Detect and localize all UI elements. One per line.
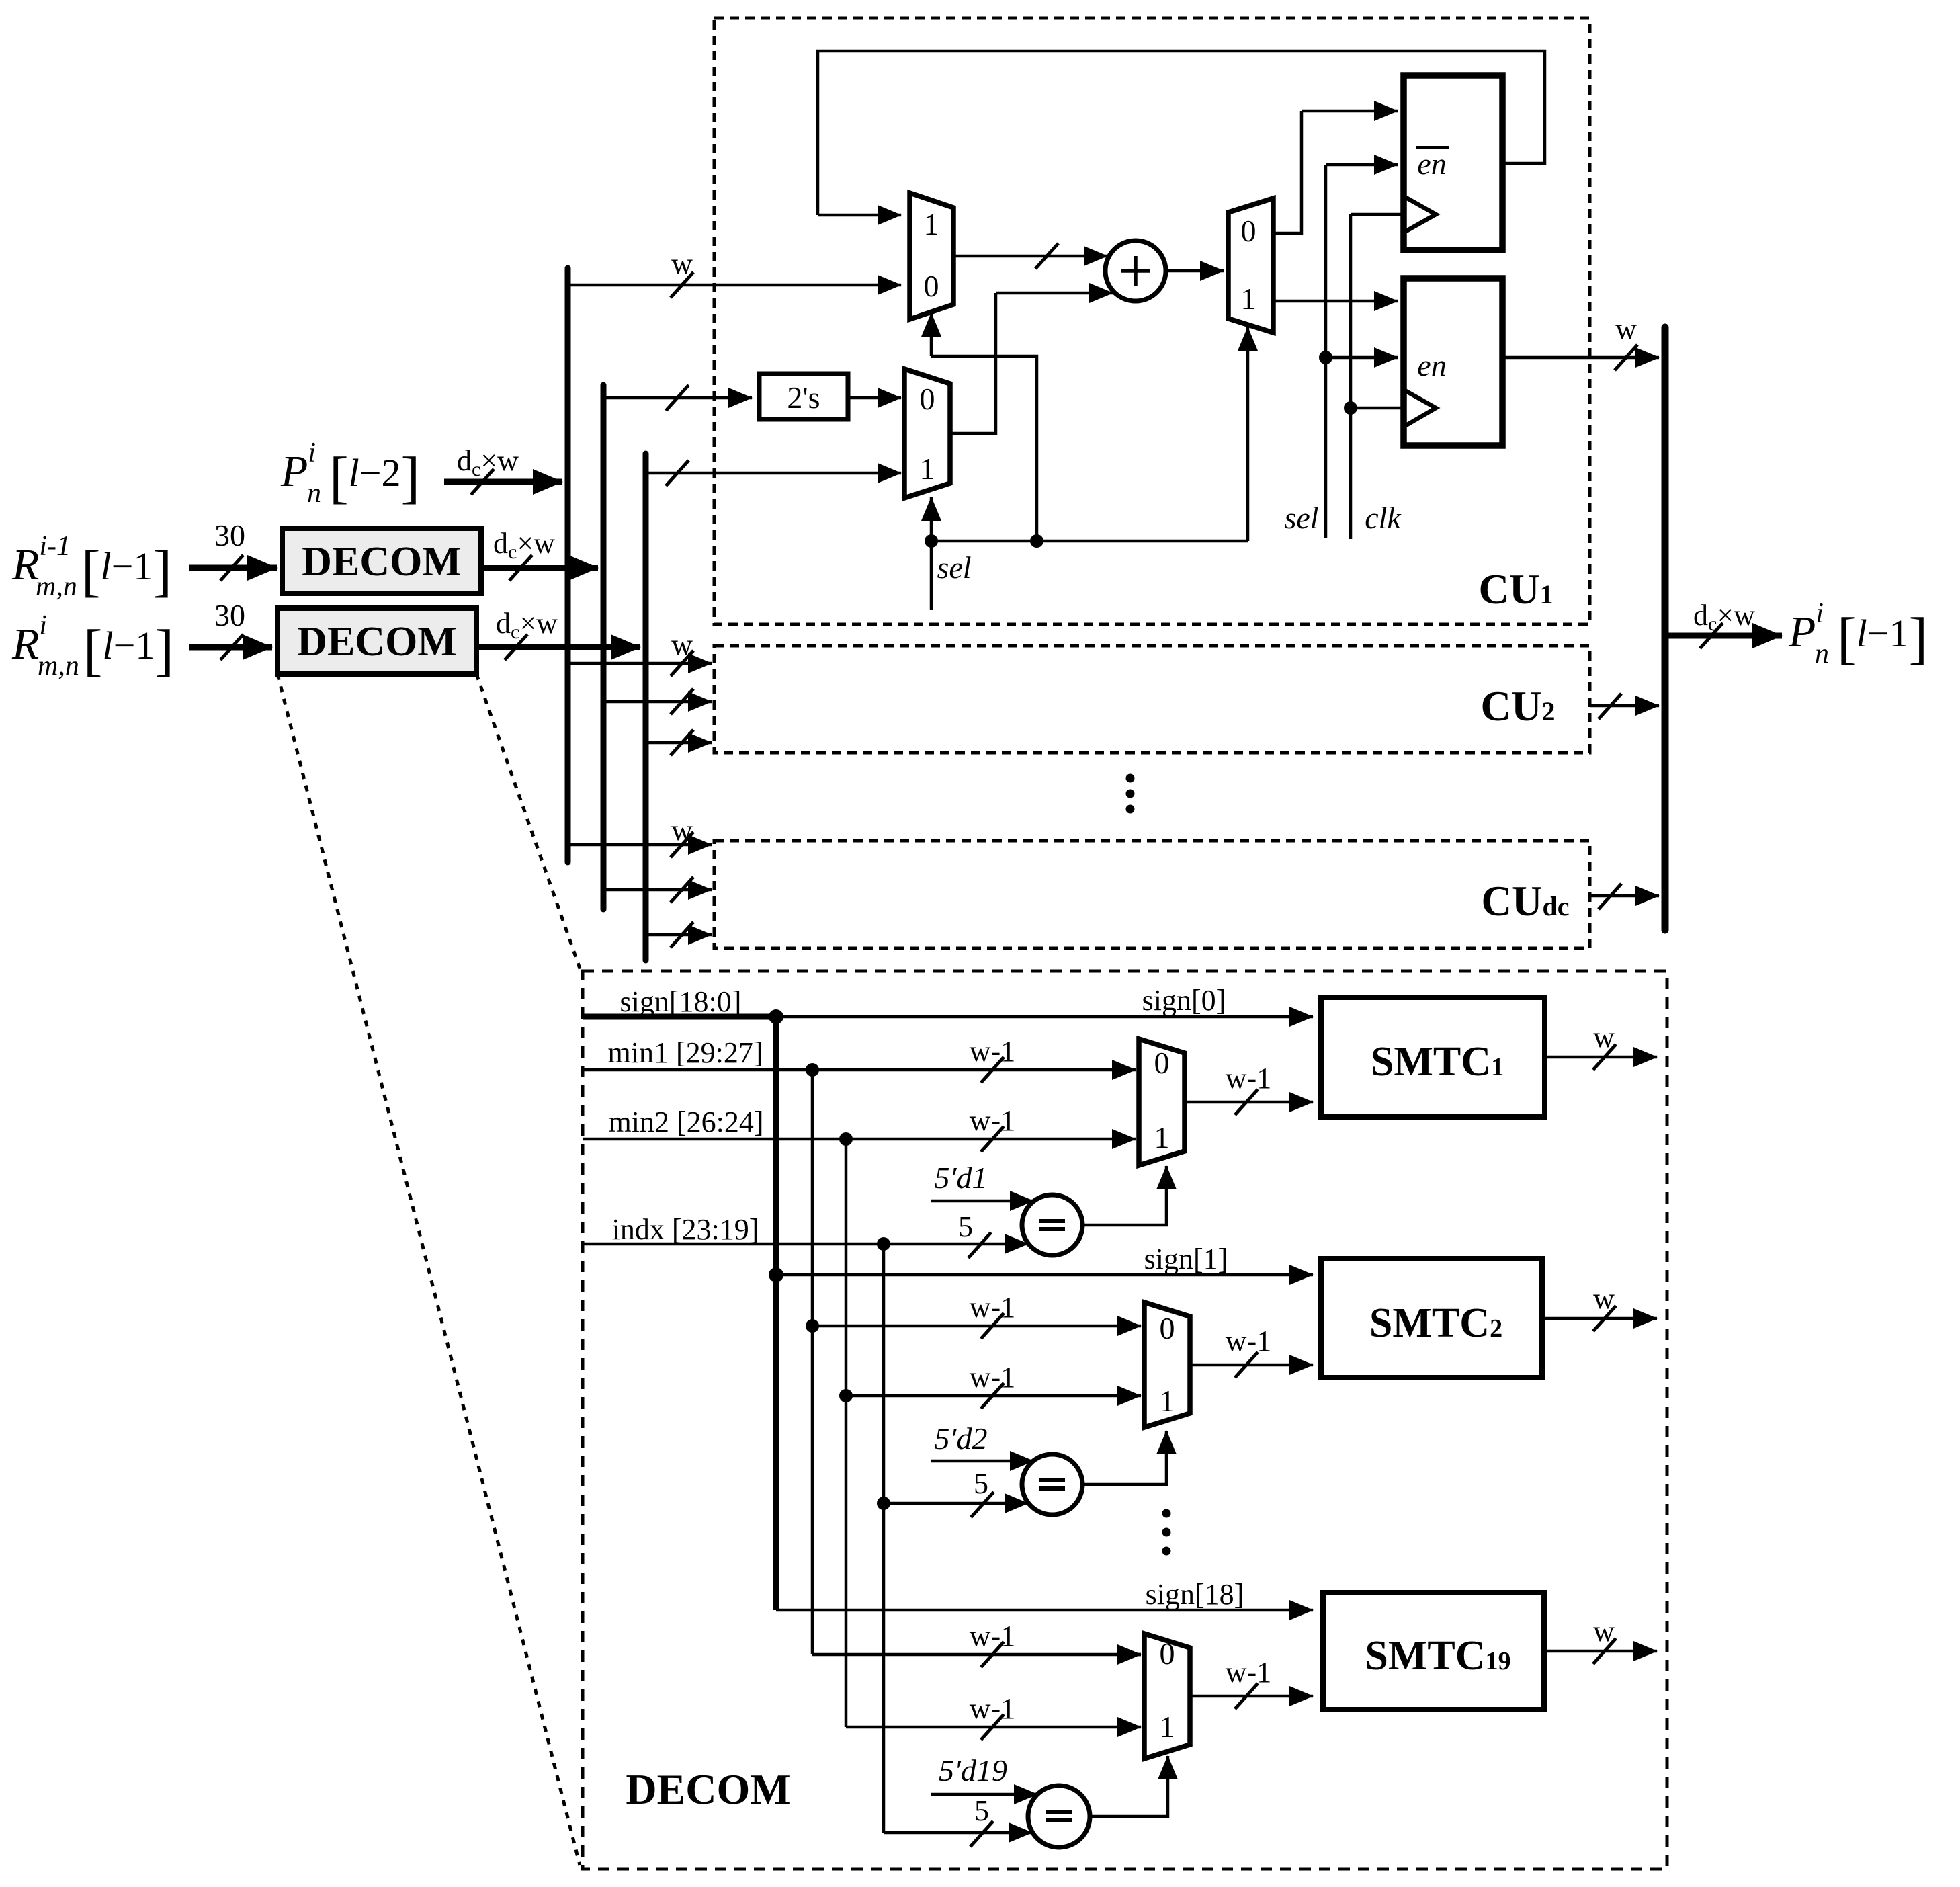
svg-text:sel: sel <box>937 550 971 585</box>
svg-text:1: 1 <box>920 452 935 486</box>
svg-text:sign[1]: sign[1] <box>1144 1243 1228 1275</box>
svg-text:w: w <box>671 814 693 847</box>
svg-text:30: 30 <box>214 598 245 632</box>
svg-text:w-1: w-1 <box>1226 1325 1271 1357</box>
svg-text:sign[18:0]: sign[18:0] <box>620 985 742 1018</box>
svg-text:0: 0 <box>1160 1636 1175 1671</box>
svg-text:en: en <box>1417 348 1446 382</box>
svg-text:indx [23:19]: indx [23:19] <box>612 1213 759 1246</box>
svg-text:SMTC2: SMTC2 <box>1369 1300 1502 1346</box>
svg-text:w-1: w-1 <box>970 1291 1015 1324</box>
svg-text:dc×w: dc×w <box>457 444 519 480</box>
svg-text:5′d2: 5′d2 <box>934 1421 987 1456</box>
svg-text:0: 0 <box>920 382 935 416</box>
svg-text:en: en <box>1417 146 1446 181</box>
svg-text:w: w <box>671 247 693 280</box>
svg-text:w-1: w-1 <box>970 1104 1015 1137</box>
svg-text:min2 [26:24]: min2 [26:24] <box>609 1105 764 1138</box>
svg-text:5: 5 <box>958 1210 973 1243</box>
svg-text:0: 0 <box>1154 1046 1170 1080</box>
svg-text:SMTC1: SMTC1 <box>1371 1039 1504 1085</box>
svg-text:1: 1 <box>924 207 939 241</box>
svg-text:0: 0 <box>924 269 939 303</box>
svg-text:DECOM: DECOM <box>626 1765 790 1813</box>
svg-text:0: 0 <box>1160 1311 1175 1345</box>
svg-text:2's: 2's <box>787 380 820 415</box>
svg-text:1: 1 <box>1241 282 1256 316</box>
svg-text:min1 [29:27]: min1 [29:27] <box>608 1036 763 1069</box>
svg-text:w: w <box>1593 1615 1615 1648</box>
svg-text:w-1: w-1 <box>970 1035 1015 1068</box>
svg-text:1: 1 <box>1160 1384 1175 1418</box>
svg-text:w-1: w-1 <box>970 1361 1015 1394</box>
svg-text:dc×w: dc×w <box>1693 599 1755 635</box>
svg-text:w-1: w-1 <box>970 1692 1015 1725</box>
svg-text:dc×w: dc×w <box>496 607 558 643</box>
svg-text:30: 30 <box>214 518 245 552</box>
svg-text:sign[18]: sign[18] <box>1146 1578 1244 1611</box>
svg-text:5′d1: 5′d1 <box>934 1161 987 1195</box>
svg-text:DECOM: DECOM <box>297 619 457 665</box>
svg-text:0: 0 <box>1241 214 1256 248</box>
svg-text:clk: clk <box>1365 501 1402 535</box>
svg-text:DECOM: DECOM <box>302 539 462 585</box>
svg-text:w: w <box>1593 1021 1615 1054</box>
svg-text:w: w <box>671 628 693 661</box>
svg-text:w: w <box>1615 312 1637 345</box>
svg-text:1: 1 <box>1154 1120 1170 1155</box>
svg-text:5: 5 <box>974 1794 989 1827</box>
svg-text:w-1: w-1 <box>1226 1656 1271 1689</box>
svg-text:1: 1 <box>1160 1710 1175 1744</box>
svg-text:sel: sel <box>1284 501 1318 535</box>
svg-text:w-1: w-1 <box>970 1620 1015 1652</box>
svg-text:w: w <box>1593 1282 1615 1315</box>
svg-text:sign[0]: sign[0] <box>1142 984 1226 1017</box>
svg-text:5′d19: 5′d19 <box>939 1753 1007 1788</box>
svg-text:w-1: w-1 <box>1226 1062 1271 1095</box>
svg-text:5: 5 <box>974 1467 988 1500</box>
svg-text:dc×w: dc×w <box>493 527 555 563</box>
